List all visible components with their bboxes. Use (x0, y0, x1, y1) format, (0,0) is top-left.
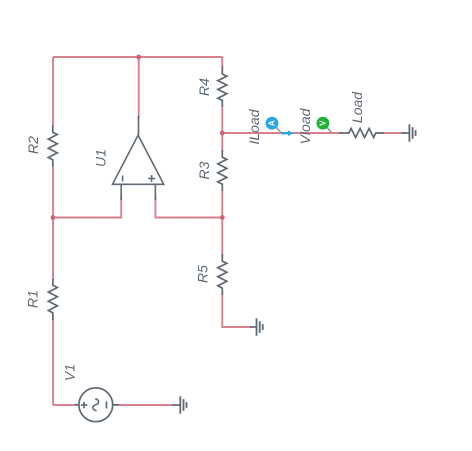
voltage probe Vload tail (327, 128, 332, 133)
svg-text:U1: U1 (93, 149, 109, 167)
wire: top horizontal from left corner to right vertical (53, 56, 222, 58)
svg-text:R2: R2 (25, 136, 41, 154)
wire: left vertical top segment (corner to R2) (52, 57, 54, 127)
ground for Load (402, 124, 416, 141)
wire: load line from R4/R3 node to Load resistor (222, 132, 341, 134)
wire: right vertical corner to R4 (221, 57, 223, 68)
resistor Load (340, 129, 385, 138)
junction node at R4/R3/load line (220, 131, 225, 136)
current probe ILoad tail (277, 128, 282, 133)
current probe ILoad circle (266, 117, 279, 130)
wire: left vertical middle segment (R2 to R1) (52, 165, 54, 280)
current probe ILoad arrow (282, 130, 294, 136)
wire: right vertical R4 to R3 (221, 106, 223, 152)
wire: right vertical R3 to R5 (221, 190, 223, 256)
svg-text:V: V (318, 120, 327, 126)
junction node at R3/R5/non-inverting input (220, 215, 225, 220)
wire: load line from Load resistor to right ground (383, 132, 406, 134)
resistor R3 (218, 150, 227, 191)
ground for V1 (172, 396, 187, 413)
wire: V1 to ground segment (115, 404, 173, 406)
wire: left vertical bottom segment (R1 to V1 corner) (52, 319, 54, 405)
wire: right vertical R5 to corner and across to ground (222, 294, 251, 328)
svg-text:Load: Load (349, 91, 365, 123)
junction node at left rail / inverting input (51, 215, 56, 220)
ground for R5 (250, 318, 263, 335)
resistor R5 (218, 254, 227, 295)
svg-text:R3: R3 (196, 161, 212, 179)
svg-text:ILoad: ILoad (246, 108, 262, 144)
op-amp U1 (113, 116, 164, 200)
junction node at op-amp output on top wire (136, 55, 141, 60)
svg-text:Vload: Vload (297, 107, 313, 144)
svg-text:R5: R5 (195, 265, 211, 283)
svg-text:V1: V1 (61, 364, 77, 381)
wire: op-amp non-inverting input to right rail (155, 196, 222, 218)
svg-text:R1: R1 (25, 290, 41, 308)
svg-text:A: A (268, 120, 277, 126)
resistor R2 (48, 126, 57, 167)
wire: op-amp output stub from top wire down (138, 57, 140, 118)
resistor R4 (218, 67, 227, 107)
wire: op-amp inverting input to left rail (53, 196, 121, 218)
voltage source V1 (75, 388, 119, 422)
resistor R1 (48, 279, 57, 320)
wire: V1 bottom left segment (53, 404, 76, 406)
svg-text:R4: R4 (196, 78, 212, 96)
voltage probe Vload circle (317, 117, 330, 130)
